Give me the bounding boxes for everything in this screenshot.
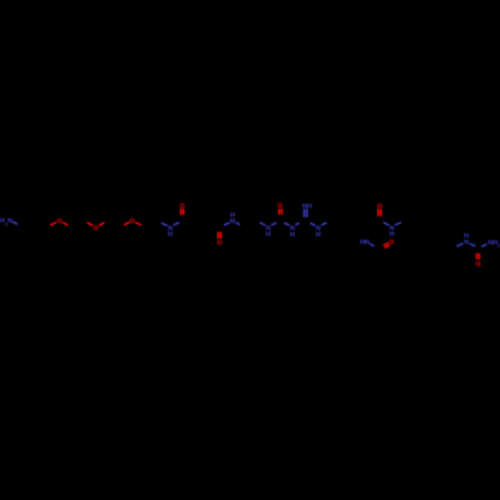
svg-text:N: N: [365, 239, 370, 246]
svg-text:H: H: [316, 231, 321, 238]
svg-text:H: H: [290, 231, 295, 238]
svg-text:N: N: [230, 218, 235, 225]
svg-text:O: O: [377, 203, 382, 210]
svg-text:O: O: [180, 203, 185, 210]
svg-text:H: H: [266, 231, 271, 238]
svg-text:H: H: [464, 233, 469, 240]
svg-text:H: H: [307, 203, 312, 210]
svg-text:O: O: [130, 218, 135, 225]
svg-text:O: O: [278, 203, 283, 210]
svg-text:H: H: [390, 231, 395, 238]
svg-text:O: O: [93, 225, 98, 232]
svg-text:O: O: [217, 240, 222, 247]
svg-text:O: O: [389, 239, 394, 246]
svg-text:O: O: [475, 261, 480, 268]
svg-text:H: H: [168, 231, 173, 238]
svg-text:O: O: [57, 218, 62, 225]
svg-text:N: N: [464, 239, 469, 246]
svg-text:N: N: [8, 217, 13, 224]
svg-text:H: H: [230, 212, 235, 219]
